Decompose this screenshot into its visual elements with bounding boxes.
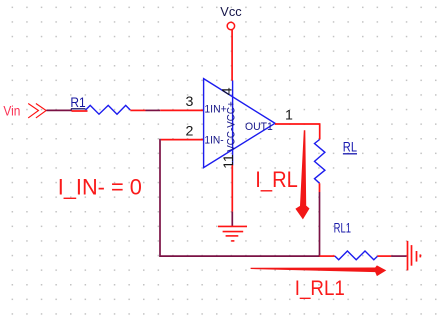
power Vcc circle: [227, 22, 234, 29]
wire RL bottom maroon: [319, 192, 321, 256]
svg-text:I_RL: I_RL: [255, 167, 297, 192]
svg-text:4: 4: [220, 87, 236, 95]
svg-text:2: 2: [186, 123, 194, 139]
svg-text:Vcc: Vcc: [220, 4, 242, 19]
port Vin chevron symbol: [28, 104, 46, 118]
svg-text:1IN-: 1IN-: [204, 135, 223, 147]
resistor RL: [315, 140, 325, 184]
svg-text:RL: RL: [343, 140, 358, 155]
wire RL1 right red: [378, 255, 392, 257]
svg-text:RL1: RL1: [334, 219, 352, 235]
ground symbol bars: [218, 226, 247, 241]
annotation arrow I_RL1: [251, 265, 387, 276]
svg-text:R1: R1: [70, 94, 85, 110]
wire junction to RL1 red: [320, 255, 335, 257]
wire RL bottom red: [319, 183, 321, 192]
wire Vcc to pin 4: [231, 30, 233, 81]
wire to right ground maroon: [391, 255, 407, 257]
wire output to RL: [275, 123, 320, 139]
wire red segment under R1 lead: [72, 110, 88, 112]
svg-text:1IN+: 1IN+: [204, 104, 227, 116]
ground stub maroon: [231, 212, 233, 227]
op-amp U1 triangle: [204, 79, 275, 168]
wire to pin 2 red: [161, 139, 204, 141]
svg-text:I_IN- = 0: I_IN- = 0: [58, 175, 142, 200]
feedback wire pin2 down and along bottom: [160, 139, 320, 256]
wire pin 11 down: [231, 165, 233, 211]
svg-text:11: 11: [221, 154, 237, 169]
svg-text:1: 1: [285, 108, 293, 124]
wire R1 to opamp maroon: [146, 109, 161, 111]
svg-text:Vin: Vin: [3, 104, 20, 119]
wire to pin 3 red: [160, 109, 204, 111]
svg-text:VCC-VCC+: VCC-VCC+: [226, 101, 238, 152]
resistor RL1: [335, 251, 378, 260]
svg-text:OUT1: OUT1: [245, 121, 273, 133]
op-amp power rail line: [232, 80, 234, 165]
wire Vin to R1: [46, 109, 72, 111]
right ground symbol bars: [408, 241, 421, 271]
wire R1 right red: [130, 109, 145, 111]
svg-text:I_RL1: I_RL1: [295, 276, 345, 300]
svg-text:3: 3: [186, 94, 194, 110]
annotation arrow I_RL: [295, 130, 309, 219]
resistor R1: [86, 105, 131, 114]
